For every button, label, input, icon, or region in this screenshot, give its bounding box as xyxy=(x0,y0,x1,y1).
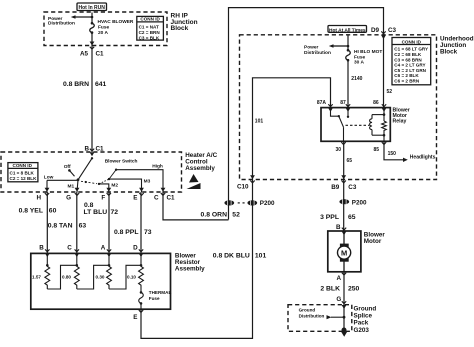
svg-text:C6 = 2 BLK: C6 = 2 BLK xyxy=(394,73,419,78)
svg-text:C2 = 12 BLK: C2 = 12 BLK xyxy=(10,176,38,181)
svg-text:C2 = BRN: C2 = BRN xyxy=(139,30,161,35)
svg-text:Assembly: Assembly xyxy=(175,266,205,273)
svg-text:20 A: 20 A xyxy=(98,30,108,36)
svg-text:3 PPL: 3 PPL xyxy=(320,214,339,221)
svg-text:G: G xyxy=(66,194,71,201)
svg-text:C1 = 8 BLK: C1 = 8 BLK xyxy=(10,171,35,176)
svg-text:101: 101 xyxy=(255,118,264,124)
svg-text:Pack: Pack xyxy=(354,320,369,327)
svg-text:C1: C1 xyxy=(167,194,176,201)
svg-text:B9: B9 xyxy=(331,184,340,191)
svg-text:641: 641 xyxy=(95,81,107,88)
svg-text:Fuse: Fuse xyxy=(149,296,160,301)
svg-text:A: A xyxy=(101,244,106,251)
svg-text:Distribution: Distribution xyxy=(299,314,325,319)
svg-text:0.10: 0.10 xyxy=(127,275,136,280)
svg-text:C: C xyxy=(154,194,159,201)
svg-text:0.8 ORN: 0.8 ORN xyxy=(201,211,228,218)
svg-text:72: 72 xyxy=(111,209,119,216)
svg-text:H: H xyxy=(36,194,41,201)
svg-text:Block: Block xyxy=(171,25,189,32)
svg-text:M2: M2 xyxy=(111,182,118,188)
svg-text:C: C xyxy=(67,244,72,251)
svg-text:D: D xyxy=(133,244,138,251)
svg-text:P200: P200 xyxy=(352,200,367,207)
svg-text:60: 60 xyxy=(49,208,57,215)
svg-text:G203: G203 xyxy=(354,327,370,334)
svg-text:E: E xyxy=(133,314,137,321)
svg-text:87A: 87A xyxy=(317,100,327,106)
svg-text:30 A: 30 A xyxy=(354,60,364,66)
svg-text:C3 = 68 BRN: C3 = 68 BRN xyxy=(394,57,422,62)
svg-text:C1: C1 xyxy=(96,145,105,152)
svg-text:0.8 YEL: 0.8 YEL xyxy=(19,208,43,215)
svg-text:0.8 BRN: 0.8 BRN xyxy=(63,81,89,88)
svg-text:2140: 2140 xyxy=(351,76,362,82)
svg-text:Fuse: Fuse xyxy=(98,25,110,31)
svg-text:CONN ID: CONN ID xyxy=(402,40,422,45)
svg-text:150: 150 xyxy=(388,151,397,157)
svg-text:2 BLK: 2 BLK xyxy=(320,285,340,292)
svg-text:HVAC BLOWER: HVAC BLOWER xyxy=(98,19,134,25)
svg-text:Blower Switch: Blower Switch xyxy=(105,158,138,164)
svg-text:30: 30 xyxy=(335,147,341,153)
svg-text:C1 = NAT: C1 = NAT xyxy=(139,25,159,30)
svg-text:52: 52 xyxy=(387,89,393,95)
svg-text:Power: Power xyxy=(304,45,319,51)
svg-text:85: 85 xyxy=(373,147,379,153)
svg-text:C3: C3 xyxy=(348,184,357,191)
svg-text:C6 = 2 BRN: C6 = 2 BRN xyxy=(394,79,420,84)
svg-text:65: 65 xyxy=(348,214,356,221)
svg-text:A5: A5 xyxy=(80,51,89,58)
svg-text:250: 250 xyxy=(348,285,360,292)
svg-text:M: M xyxy=(341,249,347,258)
svg-text:Low: Low xyxy=(44,174,54,180)
svg-text:73: 73 xyxy=(144,229,152,236)
svg-text:0.8 TAN: 0.8 TAN xyxy=(48,223,73,230)
svg-text:CONN ID: CONN ID xyxy=(140,17,160,22)
svg-text:52: 52 xyxy=(232,211,240,218)
svg-text:65: 65 xyxy=(347,158,353,164)
svg-text:0.8: 0.8 xyxy=(84,202,94,209)
svg-text:D9: D9 xyxy=(371,27,380,34)
svg-text:Assembly: Assembly xyxy=(185,165,215,172)
svg-text:Off: Off xyxy=(64,164,71,170)
svg-text:Hot In RUN: Hot In RUN xyxy=(79,5,106,11)
svg-text:Headlights: Headlights xyxy=(410,155,436,161)
svg-text:HI BLO MOT: HI BLO MOT xyxy=(354,49,382,55)
svg-text:THERMAL: THERMAL xyxy=(149,290,172,295)
svg-text:B: B xyxy=(336,224,341,231)
svg-text:C5 = 2 LT GRN: C5 = 2 LT GRN xyxy=(394,68,426,73)
svg-text:C3: C3 xyxy=(388,27,397,34)
svg-text:P200: P200 xyxy=(260,200,275,207)
svg-text:Distribution: Distribution xyxy=(48,20,75,26)
svg-text:63: 63 xyxy=(79,223,87,230)
svg-text:0.30: 0.30 xyxy=(96,275,105,280)
svg-text:Motor: Motor xyxy=(364,238,382,245)
svg-text:M1: M1 xyxy=(68,184,75,190)
svg-text:C10: C10 xyxy=(237,184,249,191)
svg-text:1.57: 1.57 xyxy=(32,275,41,280)
svg-text:B: B xyxy=(39,244,44,251)
svg-text:101: 101 xyxy=(255,252,267,259)
svg-text:C3 = BLK: C3 = BLK xyxy=(139,35,160,40)
svg-text:High: High xyxy=(152,164,163,170)
svg-text:C1 = 68 LT GRY: C1 = 68 LT GRY xyxy=(394,47,428,52)
svg-text:M3: M3 xyxy=(144,179,151,185)
svg-text:F: F xyxy=(101,194,105,201)
svg-text:Relay: Relay xyxy=(393,119,407,125)
svg-text:Block: Block xyxy=(440,48,458,55)
svg-text:0.8 PPL: 0.8 PPL xyxy=(114,229,139,236)
svg-text:B: B xyxy=(84,145,89,152)
svg-text:Distribution: Distribution xyxy=(304,50,331,56)
svg-text:G: G xyxy=(336,296,341,303)
svg-text:0.8 DK BLU: 0.8 DK BLU xyxy=(213,252,250,259)
svg-text:Splice: Splice xyxy=(354,313,373,320)
svg-text:C4 = 2 LT GRY: C4 = 2 LT GRY xyxy=(394,63,425,68)
svg-text:LT BLU: LT BLU xyxy=(84,209,108,216)
svg-text:86: 86 xyxy=(373,100,379,106)
svg-text:C1: C1 xyxy=(96,51,105,58)
svg-text:Ground: Ground xyxy=(354,306,377,313)
svg-text:C2 = 68 BLK: C2 = 68 BLK xyxy=(394,52,422,57)
svg-text:CONN ID: CONN ID xyxy=(13,163,33,168)
svg-text:Hot At All Times: Hot At All Times xyxy=(329,27,366,33)
svg-text:Ground: Ground xyxy=(299,307,316,312)
svg-text:A: A xyxy=(336,275,341,282)
svg-text:E: E xyxy=(133,194,137,201)
svg-text:0.80: 0.80 xyxy=(62,275,71,280)
svg-text:87: 87 xyxy=(340,100,346,106)
svg-text:Fuse: Fuse xyxy=(354,54,366,60)
